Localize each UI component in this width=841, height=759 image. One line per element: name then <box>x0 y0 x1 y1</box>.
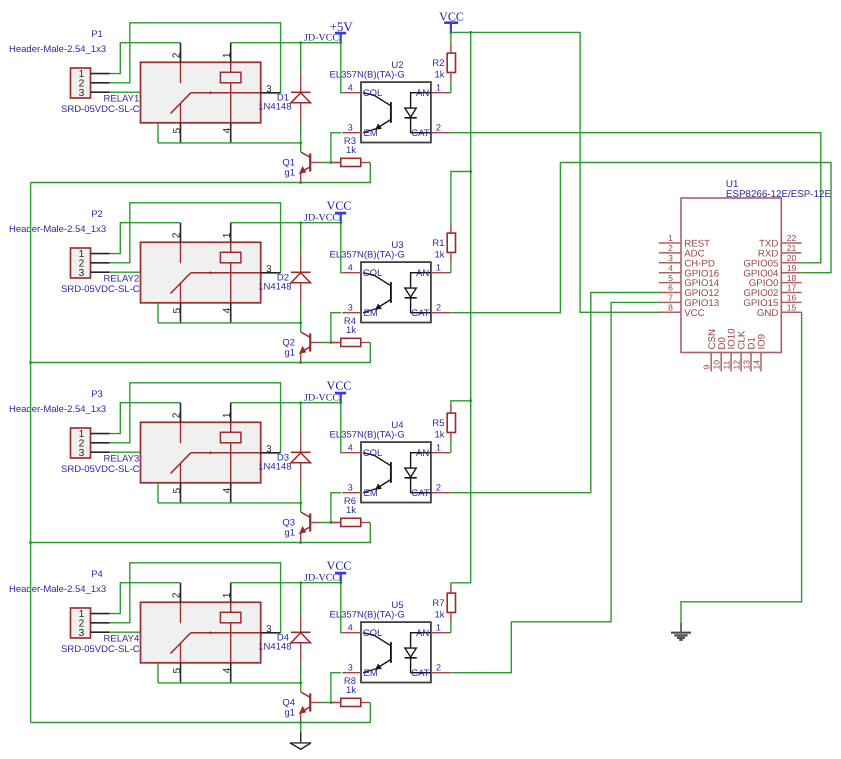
svg-text:RELAY2: RELAY2 <box>104 274 140 285</box>
svg-text:1k: 1k <box>434 610 444 621</box>
svg-text:3: 3 <box>79 628 85 639</box>
junction base node <box>329 521 332 524</box>
svg-text:3: 3 <box>79 448 85 459</box>
svg-text:21: 21 <box>787 243 797 253</box>
wire opto U3 EM to base node <box>331 313 341 343</box>
junction diode D1 anode <box>299 141 302 144</box>
svg-text:JD-VCC: JD-VCC <box>304 573 339 584</box>
wire emitter rail block 3 <box>31 523 371 543</box>
svg-text:1k: 1k <box>346 505 356 516</box>
svg-text:4: 4 <box>348 83 353 93</box>
svg-text:2: 2 <box>436 663 441 673</box>
resistor R2 1k <box>447 44 455 93</box>
svg-text:3: 3 <box>79 88 85 99</box>
svg-text:RELAY3: RELAY3 <box>104 454 140 465</box>
svg-text:1: 1 <box>436 83 441 93</box>
wire Q3 base to R6 and opto EM <box>321 522 341 524</box>
junction JD-VCC / diode D2 <box>299 221 302 224</box>
svg-text:Header-Male-2.54_1x3: Header-Male-2.54_1x3 <box>9 44 106 55</box>
svg-text:5: 5 <box>668 273 673 283</box>
junction VCC rail R1 tap <box>469 170 472 173</box>
relay RELAY2 SRD-05VDC-SL-C <box>141 223 281 323</box>
wire P4 pin3 to relay-coil bottom rail <box>110 632 159 683</box>
svg-text:2: 2 <box>668 243 673 253</box>
power flag JD-VCC block 4 <box>304 559 351 584</box>
svg-text:P1: P1 <box>91 29 103 40</box>
wire P2 pin2 to RELAY2 pin3 <box>110 203 281 273</box>
svg-text:3: 3 <box>266 264 272 275</box>
svg-text:SRD-05VDC-SL-C: SRD-05VDC-SL-C <box>61 104 140 115</box>
svg-text:3: 3 <box>348 483 353 493</box>
svg-text:EM: EM <box>364 668 378 679</box>
relay RELAY3 SRD-05VDC-SL-C <box>141 403 281 503</box>
wire P3 pin2 to RELAY3 pin3 <box>110 383 281 453</box>
svg-text:AN: AN <box>416 628 429 639</box>
svg-text:1: 1 <box>222 412 233 418</box>
wire relay RELAY4 pins 4,5 / diode D4 anode rail <box>158 682 301 684</box>
junction emitter Q2 <box>299 361 302 364</box>
power flag JD-VCC block 1 <box>304 19 353 44</box>
svg-text:2: 2 <box>436 123 441 133</box>
resistor R8 1k <box>331 698 370 706</box>
wire VCC rail down <box>470 32 472 582</box>
svg-text:12: 12 <box>731 360 741 370</box>
svg-text:COL: COL <box>363 88 383 99</box>
svg-text:VCC: VCC <box>327 379 352 393</box>
svg-text:1: 1 <box>222 592 233 598</box>
junction JD-VCC stub block 2 <box>339 221 342 224</box>
relay RELAY1 SRD-05VDC-SL-C <box>141 43 281 143</box>
junction JD-VCC stub block 4 <box>339 581 342 584</box>
optocoupler U2 EL357N <box>342 82 450 142</box>
svg-text:RELAY1: RELAY1 <box>104 94 140 105</box>
IC U1 ESP8266-12E/ESP-12E <box>659 198 802 372</box>
svg-text:16: 16 <box>787 293 797 303</box>
junction VCC flag node <box>449 31 452 34</box>
resistor R7 1k <box>447 584 455 633</box>
svg-text:2: 2 <box>436 483 441 493</box>
power flag JD-VCC block 2 <box>304 199 351 224</box>
svg-text:1k: 1k <box>434 70 444 81</box>
wire P2 pin1 to RELAY2 pin2 <box>110 223 180 254</box>
svg-text:2: 2 <box>172 232 183 238</box>
svg-text:1N4148: 1N4148 <box>258 642 291 653</box>
wire JD-VCC rail block 2 <box>231 222 341 224</box>
diode D2 1N4148 <box>291 223 311 332</box>
svg-text:1k: 1k <box>434 430 444 441</box>
svg-text:13: 13 <box>741 360 751 370</box>
wire opto U2 EM to base node <box>331 133 341 163</box>
junction base node <box>329 161 332 164</box>
wire P1 pin2 to RELAY1 pin3 <box>110 23 281 93</box>
svg-text:1: 1 <box>222 52 233 58</box>
junction emitter Q4 <box>299 721 302 724</box>
svg-text:VCC: VCC <box>439 9 464 23</box>
svg-text:11: 11 <box>721 360 731 369</box>
svg-text:7: 7 <box>668 293 673 303</box>
svg-text:3: 3 <box>79 268 85 279</box>
resistor R4 1k <box>331 338 370 346</box>
svg-text:1: 1 <box>436 263 441 273</box>
wire opto U4 EM to base node <box>331 493 341 523</box>
transistor Q2 <box>299 332 321 363</box>
wire JD-VCC rail block 1 <box>231 42 341 44</box>
svg-text:g1: g1 <box>284 708 295 719</box>
wire P3 pin3 to relay-coil bottom rail <box>110 452 159 503</box>
svg-text:JD-VCC: JD-VCC <box>304 213 339 224</box>
svg-text:15: 15 <box>787 303 797 313</box>
resistor R1 1k <box>447 224 455 273</box>
wire P4 pin1 to RELAY4 pin2 <box>110 583 180 614</box>
wire U3 CAT to GPIO04 <box>451 163 831 313</box>
svg-text:3: 3 <box>348 303 353 313</box>
svg-text:R5: R5 <box>432 418 444 429</box>
resistor R5 1k <box>447 404 455 453</box>
svg-text:1k: 1k <box>434 250 444 261</box>
junction VCC rail top <box>469 31 472 34</box>
svg-text:GND: GND <box>757 308 779 319</box>
svg-text:g1: g1 <box>284 348 295 359</box>
svg-text:VCC: VCC <box>684 308 704 319</box>
svg-text:SRD-05VDC-SL-C: SRD-05VDC-SL-C <box>61 284 140 295</box>
svg-text:EM: EM <box>364 128 378 139</box>
svg-text:5: 5 <box>172 308 183 314</box>
junction base node <box>329 701 332 704</box>
svg-text:R1: R1 <box>432 238 444 249</box>
junction emitter Q3 <box>299 541 302 544</box>
svg-text:5: 5 <box>172 488 183 494</box>
svg-text:COL: COL <box>363 628 383 639</box>
svg-text:8: 8 <box>668 303 673 313</box>
svg-text:1N4148: 1N4148 <box>258 462 291 473</box>
svg-text:4: 4 <box>348 443 353 453</box>
wire opto U5 EM to base node <box>331 673 341 703</box>
junction JD-VCC stub block 1 <box>339 41 342 44</box>
wire opto U4 COL to JD-VCC <box>341 403 342 453</box>
optocoupler U4 EL357N <box>342 442 450 502</box>
svg-text:2: 2 <box>172 412 183 418</box>
power flag JD-VCC block 3 <box>304 379 351 404</box>
wire Q1 base to R3 and opto EM <box>321 162 341 164</box>
svg-text:JD-VCC: JD-VCC <box>304 33 339 44</box>
connector P4 Header-Male-2.54_1x3 <box>71 608 110 639</box>
svg-text:SRD-05VDC-SL-C: SRD-05VDC-SL-C <box>61 644 140 655</box>
wire opto U5 COL to JD-VCC <box>341 583 342 633</box>
wire emitter rail block 2 <box>31 343 371 363</box>
svg-text:6: 6 <box>668 283 673 293</box>
junction JD-VCC / diode D3 <box>299 401 302 404</box>
svg-text:CAT: CAT <box>411 128 429 139</box>
svg-text:P2: P2 <box>91 209 103 220</box>
svg-text:22: 22 <box>787 233 797 243</box>
wire JD-VCC rail block 4 <box>231 582 341 584</box>
wire P3 pin1 to RELAY3 pin2 <box>110 403 180 434</box>
diode D1 1N4148 <box>291 43 311 152</box>
svg-text:19: 19 <box>787 263 797 273</box>
resistor R3 1k <box>331 158 370 166</box>
svg-text:JD-VCC: JD-VCC <box>304 393 339 404</box>
svg-text:2: 2 <box>172 592 183 598</box>
transistor Q4 <box>299 692 321 723</box>
svg-text:AN: AN <box>416 268 429 279</box>
wire emitter rail block 1 <box>31 163 371 183</box>
wire U5 CAT to GPIO13 <box>451 302 661 672</box>
wire VCC tap to R5 <box>451 401 471 404</box>
svg-text:COL: COL <box>363 268 383 279</box>
svg-text:1: 1 <box>436 623 441 633</box>
svg-text:COL: COL <box>363 448 383 459</box>
svg-text:4: 4 <box>348 623 353 633</box>
svg-text:18: 18 <box>787 273 797 283</box>
power flag VCC (block 1) <box>439 9 464 44</box>
wire opto U2 COL to JD-VCC <box>341 43 342 93</box>
svg-text:RELAY4: RELAY4 <box>104 634 140 645</box>
svg-text:CAT: CAT <box>411 488 429 499</box>
svg-text:SRD-05VDC-SL-C: SRD-05VDC-SL-C <box>61 464 140 475</box>
svg-text:5: 5 <box>172 128 183 134</box>
svg-text:3: 3 <box>266 444 272 455</box>
svg-text:P3: P3 <box>91 389 103 400</box>
svg-text:AN: AN <box>416 88 429 99</box>
wire P1 pin1 to RELAY1 pin2 <box>110 43 180 74</box>
wire emitter bus left rail <box>30 183 32 723</box>
svg-text:4: 4 <box>348 263 353 273</box>
svg-text:1k: 1k <box>346 145 356 156</box>
svg-text:1: 1 <box>222 232 233 238</box>
optocoupler U5 EL357N <box>342 622 450 682</box>
junction base node <box>329 341 332 344</box>
svg-text:VCC: VCC <box>327 559 352 573</box>
connector P2 Header-Male-2.54_1x3 <box>71 248 110 279</box>
svg-text:1k: 1k <box>346 325 356 336</box>
svg-text:EM: EM <box>364 308 378 319</box>
svg-text:R2: R2 <box>432 58 444 69</box>
svg-text:3: 3 <box>348 123 353 133</box>
wire VCC tap to R1 <box>451 172 471 224</box>
wire emitter rail block 4 <box>31 703 371 723</box>
diode D3 1N4148 <box>291 403 311 512</box>
svg-text:1k: 1k <box>346 685 356 696</box>
svg-text:Header-Male-2.54_1x3: Header-Male-2.54_1x3 <box>9 584 106 595</box>
resistor R6 1k <box>331 518 370 526</box>
svg-text:4: 4 <box>222 668 233 674</box>
svg-text:14: 14 <box>751 360 761 370</box>
junction left rail block3 <box>29 541 32 544</box>
junction diode D4 anode <box>299 681 302 684</box>
optocoupler U3 EL357N <box>342 262 450 322</box>
svg-text:17: 17 <box>787 283 797 293</box>
wire VCC to ESP pin 8 <box>451 32 661 312</box>
wire Q2 base to R4 and opto EM <box>321 342 341 344</box>
junction diode D2 anode <box>299 321 302 324</box>
wire ESP GND to ground <box>681 312 802 623</box>
svg-text:3: 3 <box>668 253 673 263</box>
connector P1 Header-Male-2.54_1x3 <box>71 68 110 99</box>
junction left rail block2 <box>29 361 32 364</box>
wire relay RELAY3 pins 4,5 / diode D3 anode rail <box>158 502 301 504</box>
wire U4 CAT to GPIO12 <box>451 293 661 493</box>
svg-text:VCC: VCC <box>327 199 352 213</box>
wire P2 pin3 to relay-coil bottom rail <box>110 272 159 323</box>
wire JD-VCC rail block 3 <box>231 402 341 404</box>
svg-text:g1: g1 <box>284 528 295 539</box>
svg-text:2: 2 <box>172 52 183 58</box>
junction diode D3 anode <box>299 501 302 504</box>
wire P4 pin2 to RELAY4 pin3 <box>110 563 281 633</box>
junction Q4 emitter / ground <box>299 721 302 724</box>
ground (near U1) <box>671 623 691 640</box>
svg-text:4: 4 <box>668 263 673 273</box>
svg-text:5: 5 <box>172 668 183 674</box>
svg-text:3: 3 <box>348 663 353 673</box>
wire opto U3 COL to JD-VCC <box>341 223 342 273</box>
wire U2 CAT to GPIO05 <box>451 133 821 263</box>
diode D4 1N4148 <box>291 583 311 692</box>
svg-text:10: 10 <box>712 360 722 370</box>
wire VCC tap to R7 <box>451 583 471 584</box>
svg-text:P4: P4 <box>91 569 103 580</box>
junction JD-VCC stub block 3 <box>339 401 342 404</box>
svg-text:R7: R7 <box>432 598 444 609</box>
svg-text:20: 20 <box>787 253 797 263</box>
svg-text:4: 4 <box>222 128 233 134</box>
svg-text:4: 4 <box>222 308 233 314</box>
junction JD-VCC / diode D1 <box>299 41 302 44</box>
svg-text:CAT: CAT <box>411 668 429 679</box>
junction JD-VCC / diode D4 <box>299 581 302 584</box>
svg-text:AN: AN <box>416 448 429 459</box>
svg-text:ESP8266-12E/ESP-12E: ESP8266-12E/ESP-12E <box>726 189 832 200</box>
transistor Q3 <box>299 512 321 543</box>
connector P3 Header-Male-2.54_1x3 <box>71 428 110 459</box>
svg-text:1N4148: 1N4148 <box>258 282 291 293</box>
junction emitter Q1 <box>299 181 302 184</box>
svg-text:EM: EM <box>364 488 378 499</box>
svg-text:Header-Male-2.54_1x3: Header-Male-2.54_1x3 <box>9 404 106 415</box>
svg-text:1: 1 <box>436 443 441 453</box>
wire relay RELAY2 pins 4,5 / diode D2 anode rail <box>158 322 301 324</box>
svg-text:g1: g1 <box>284 168 295 179</box>
svg-text:Header-Male-2.54_1x3: Header-Male-2.54_1x3 <box>9 224 106 235</box>
ground (below Q4) <box>290 723 311 750</box>
svg-text:2: 2 <box>436 303 441 313</box>
wire Q4 base to R8 and opto EM <box>321 702 341 704</box>
svg-text:1: 1 <box>668 233 673 243</box>
svg-text:4: 4 <box>222 488 233 494</box>
svg-text:1N4148: 1N4148 <box>258 102 291 113</box>
svg-text:3: 3 <box>266 84 272 95</box>
svg-text:IO9: IO9 <box>757 334 768 350</box>
svg-text:9: 9 <box>702 365 712 370</box>
svg-text:3: 3 <box>266 624 272 635</box>
junction VCC rail R5 tap <box>469 399 472 402</box>
wire P1 pin3 to relay-coil bottom rail <box>110 92 159 143</box>
wire relay RELAY1 pins 4,5 / diode D1 anode rail <box>158 142 301 144</box>
svg-text:CAT: CAT <box>411 308 429 319</box>
transistor Q1 <box>299 152 321 183</box>
relay RELAY4 SRD-05VDC-SL-C <box>141 583 281 683</box>
